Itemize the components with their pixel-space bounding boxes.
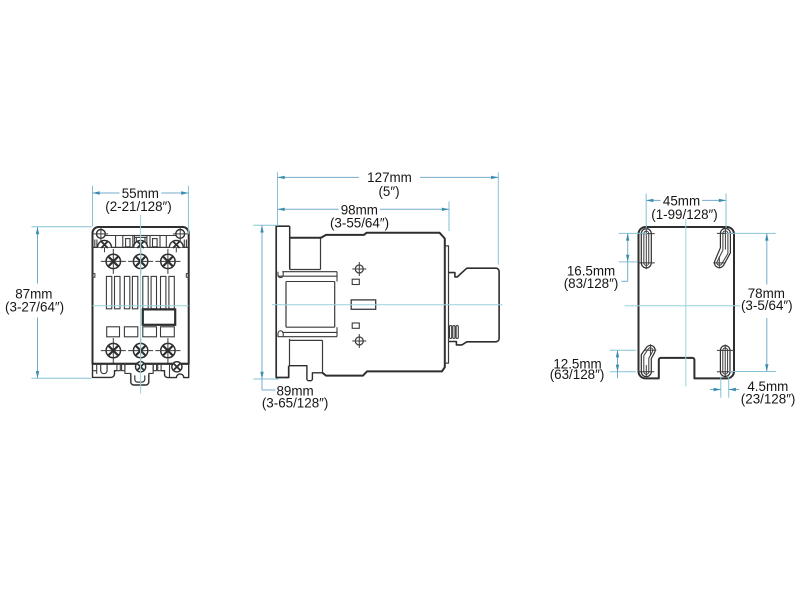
front terminal screw 6T3 [155, 338, 180, 363]
dim 12.5mm extension line bottom [610, 371, 636, 373]
front view: lower window 4 [161, 327, 175, 337]
dim 45mm extension line right [725, 194, 727, 229]
back view: slot bottom-left outer (bent) [641, 345, 655, 376]
svg-text:(5″): (5″) [378, 184, 399, 199]
front view: top band inner line [104, 235, 177, 237]
dim 87mm dimension line [37, 227, 39, 284]
side view: bottom foot [289, 366, 323, 381]
dim 55mm extension line right [187, 186, 189, 234]
side view: horizontal centerline [272, 304, 503, 306]
dim 127mm dimension line [278, 176, 360, 178]
front view: horizontal centerline [93, 305, 189, 307]
back view: vertical centerline [685, 219, 687, 387]
front view: contactor body outline [93, 227, 189, 364]
front view: bottom din-rail clip inner [135, 375, 145, 382]
front view: side notch right [186, 274, 188, 278]
dim 55mm dimension line [93, 192, 120, 194]
side view: front cover strip [445, 246, 449, 363]
dim 12.5mm extension line top [610, 349, 636, 351]
side view: main body outline [290, 233, 445, 376]
side view: flange rail lower hook [278, 331, 283, 337]
svg-text:(23/128″): (23/128″) [741, 391, 796, 406]
front terminal screw 1L1 [101, 249, 126, 274]
front view: bottom small tab 1 [117, 363, 120, 370]
back view: slot bottom-left inner (bent) [644, 348, 653, 374]
front view: top band tab line d [165, 236, 167, 248]
dim 16.5mm extension line top [619, 232, 647, 234]
svg-text:(3-5/64″): (3-5/64″) [741, 298, 793, 313]
side view: rail end verticals [336, 272, 338, 282]
front corner screw top-left [94, 227, 109, 242]
back view: slot top-left outer [641, 229, 651, 268]
front view: arc-chute slot group 2 [124, 276, 129, 308]
front top coil screw 1 [98, 240, 112, 252]
side view: face center label slot [351, 300, 376, 309]
back view: slot bottom-left crosshair [638, 371, 654, 373]
side view: magnet core block [285, 282, 287, 328]
svg-text:127mm: 127mm [367, 170, 412, 185]
dim 55mm extension line left [92, 186, 94, 227]
side view: rear recess bottom [322, 340, 324, 372]
back view: slot top-right outer (bent) [714, 228, 730, 267]
dim 89mm extension line bottom [253, 378, 278, 380]
dim 87mm extension line bottom [32, 377, 92, 379]
svg-text:(3-27/64″): (3-27/64″) [5, 299, 64, 314]
front view: bottom small tab 2 [122, 363, 125, 370]
front terminal screw 2T1 [101, 338, 126, 363]
front view: bottom right foot [161, 363, 188, 377]
dim 78mm extension line top [726, 232, 776, 234]
front view: arc-chute slot group 3 [143, 276, 148, 308]
side view: flange rail upper hook [278, 272, 283, 278]
front view: bottom small tab 3 [153, 363, 156, 370]
dim 16.5mm extension line bottom [619, 261, 638, 263]
front view: arc-chute slot group 4 [161, 276, 166, 308]
back view: slot top-right crosshair [717, 232, 734, 234]
dim 89mm dimension line with leader [261, 225, 263, 390]
svg-text:(63/128″): (63/128″) [550, 367, 605, 382]
dim 12.5mm dimension line [617, 350, 619, 378]
side view: coil cover cap [449, 268, 500, 345]
front terminal screw 4T2 [128, 338, 153, 363]
front view: lower window 3 [143, 327, 157, 337]
front view: bottom din-rail clip outer [131, 373, 149, 385]
back view: slot bottom-right crosshair [717, 349, 734, 351]
side view: face small window lower [352, 323, 359, 328]
dim 4.5mm dimension line [710, 389, 721, 391]
back view: slot bottom-right inner [723, 348, 728, 374]
back view: slot bottom-right outer [720, 346, 730, 377]
dim 16.5mm dimension line with tail [627, 233, 629, 281]
front view: bottom band top line [93, 362, 189, 364]
svg-text:(3-55/64″): (3-55/64″) [330, 216, 389, 231]
front terminal screw 3L2 [128, 249, 153, 274]
back view: slot top-right inner (bent) [717, 231, 728, 265]
front view: vertical centerline [140, 215, 142, 394]
front view: bottom left hook screw line [96, 363, 98, 374]
front view: top band window tab c [150, 236, 160, 248]
svg-text:(1-99/128″): (1-99/128″) [651, 207, 718, 222]
dim 45mm extension line left [645, 194, 647, 229]
front corner screw top-right [173, 227, 188, 242]
side view: lower flange edge [289, 339, 291, 366]
front view: bottom center shoulder left [125, 363, 131, 373]
dim 98mm dimension line [278, 208, 339, 210]
svg-text:(83/128″): (83/128″) [564, 276, 619, 291]
front view: top band right comb [183, 240, 185, 248]
front view: bottom left foot [93, 363, 117, 377]
front view: bottom right foot inner line [169, 363, 171, 377]
front terminal screw 5L3 [155, 249, 180, 274]
back view: slot top-left inner [644, 231, 649, 265]
dim 127mm extension line left [277, 172, 279, 226]
side view: flange rail upper lines [282, 271, 337, 273]
dim 87mm extension line top [32, 226, 92, 228]
back view: slot top-left crosshair [638, 233, 655, 235]
dim 89mm extension line top [253, 224, 278, 226]
dim 127mm extension line right [497, 172, 499, 264]
side view: face crosshair upper [352, 268, 366, 270]
front bottom aux screw [172, 362, 182, 372]
side view: rear recess top [320, 237, 322, 270]
dim 98mm extension line right [448, 201, 450, 231]
side view: face crosshair lower [352, 340, 366, 342]
back view: horizontal centerline [625, 305, 740, 307]
side view: flange top tab right edge [289, 226, 291, 269]
front view: top band left comb [94, 240, 96, 248]
front view: bottom left hook [101, 363, 107, 373]
front view: arc-chute slot group 1 [106, 276, 111, 308]
side view: face small window upper [352, 279, 359, 284]
side view: coil terminal ridges [450, 326, 452, 339]
front view: top band center tab [134, 236, 147, 248]
svg-text:(2-21/128″): (2-21/128″) [105, 199, 172, 214]
front view: bottom center shoulder right [149, 363, 153, 373]
dim 4.5mm extension line right [728, 377, 730, 398]
side view: flange rail lower lines [282, 331, 337, 333]
dim 78mm dimension line [766, 233, 768, 284]
front view: top band bottom line [93, 246, 189, 248]
front view: bottom small tab 4 [158, 363, 161, 370]
dim 4.5mm extension line left [720, 377, 722, 398]
front top coil screw 2 [134, 240, 148, 252]
front top coil screw 3 [169, 240, 183, 252]
front view: lower window 1 [107, 327, 120, 337]
front view: top band tab line a [115, 236, 117, 248]
front view: side notch left [93, 274, 95, 278]
front view: top band window tab b [123, 236, 133, 248]
front bottom coil screw A2 [136, 362, 146, 372]
dim 78mm extension line bottom [730, 371, 776, 373]
side view: mounting flange plate [276, 226, 290, 377]
front view: nameplate label rectangle [143, 309, 175, 324]
svg-text:(3-65/128″): (3-65/128″) [262, 396, 329, 411]
back view: mounting plate outline with bottom notch [639, 227, 735, 378]
dim 45mm dimension line [646, 199, 660, 201]
front view: lower window 2 [124, 327, 137, 337]
